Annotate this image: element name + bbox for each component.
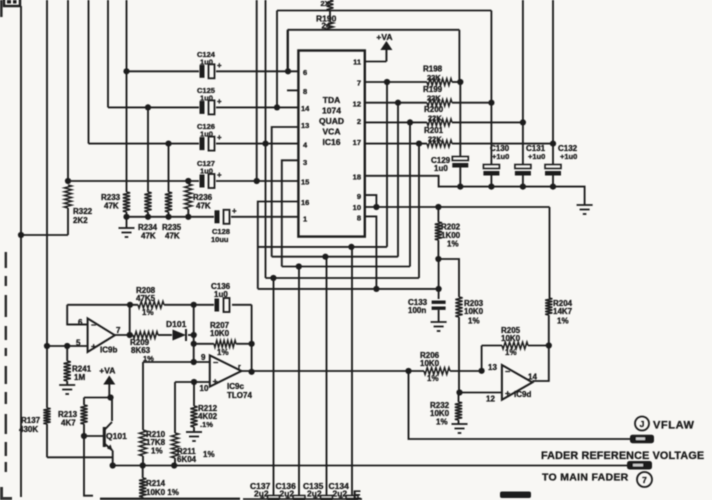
svg-text:47K: 47K bbox=[196, 202, 211, 211]
svg-text:1u0: 1u0 bbox=[200, 167, 213, 176]
label C135 bbox=[303, 481, 324, 499]
node dot emitter/rail bbox=[110, 462, 116, 468]
wire pin2 line (y=122.4) bbox=[365, 121, 523, 123]
node dot pin12 R203/R232 bbox=[456, 389, 462, 395]
svg-text:2u2: 2u2 bbox=[254, 489, 269, 499]
node dot pin7/x387 bbox=[384, 79, 390, 85]
node dot out/x130 bbox=[127, 332, 133, 338]
wire pin3 wrap (x=281.8) bbox=[282, 160, 299, 266]
node dot U4/drop1 bbox=[270, 275, 276, 281]
svg-text:47K: 47K bbox=[141, 232, 156, 241]
node dot rail/R211 bbox=[171, 462, 177, 468]
svg-text:24: 24 bbox=[322, 22, 331, 31]
capacitor C124 bbox=[197, 50, 222, 78]
capacitor C129 column bbox=[431, 30, 468, 187]
svg-text:+VA: +VA bbox=[376, 32, 392, 42]
svg-text:17: 17 bbox=[353, 138, 361, 147]
wire bus V3 (x=68 top edge to row4) bbox=[67, 0, 69, 184]
svg-text:1%: 1% bbox=[151, 447, 163, 456]
bottom-edge E mark bbox=[353, 488, 361, 500]
svg-text:10K0 1%: 10K0 1% bbox=[146, 488, 179, 497]
svg-text:−: − bbox=[505, 367, 510, 377]
svg-text:3: 3 bbox=[303, 158, 307, 167]
svg-text:J: J bbox=[640, 419, 645, 429]
svg-text:6K04: 6K04 bbox=[177, 455, 197, 464]
svg-text:2X: 2X bbox=[321, 0, 330, 8]
node dot VA/collector bbox=[107, 394, 113, 400]
svg-text:R214: R214 bbox=[146, 479, 166, 488]
node dot feedback/R204 bbox=[546, 342, 552, 348]
svg-text:10K0: 10K0 bbox=[420, 359, 440, 368]
pin 16 label bbox=[301, 198, 309, 207]
node dot C131 rail bbox=[520, 184, 526, 190]
wire pin7 line (y=82) bbox=[365, 81, 461, 83]
svg-text:−: − bbox=[91, 320, 96, 330]
svg-text:IC9d: IC9d bbox=[514, 390, 531, 399]
wire VA node (y=397.5) bbox=[84, 397, 112, 399]
node dot C130 rail bbox=[488, 184, 494, 190]
resistor R214 bbox=[139, 466, 179, 500]
svg-text:1u0: 1u0 bbox=[200, 94, 213, 103]
svg-text:2u2: 2u2 bbox=[333, 489, 348, 499]
wire drop pin17 (x=419) bbox=[418, 144, 420, 278]
node dot plus/x47 bbox=[44, 343, 50, 349]
op-amp IC9d bbox=[486, 363, 537, 404]
node dot main/VFLAW tap bbox=[405, 368, 411, 374]
svg-text:VCA: VCA bbox=[323, 127, 341, 137]
node dot U5/C133 column bbox=[436, 286, 442, 292]
pin 10 label bbox=[353, 203, 361, 212]
wire drop to C137 bbox=[273, 278, 275, 496]
wire R207 line bbox=[194, 343, 252, 345]
bottom-left scan mark bbox=[0, 487, 12, 500]
node dot plus/R241 bbox=[64, 343, 70, 349]
wire IC9d feedback (y=345.5) bbox=[482, 346, 549, 371]
svg-text:12: 12 bbox=[486, 395, 495, 404]
capacitor C133 bbox=[408, 298, 446, 322]
node dot R207 left bbox=[191, 341, 197, 347]
wire pin9 line (y=362) bbox=[143, 361, 210, 363]
connector fader reference bbox=[627, 461, 652, 470]
pin 1 label bbox=[303, 215, 307, 224]
ground R241 bbox=[59, 385, 75, 394]
svg-text:10uu: 10uu bbox=[211, 235, 229, 244]
wire drop pin12 (x=398) bbox=[397, 103, 399, 257]
svg-text:R137: R137 bbox=[21, 416, 41, 425]
wire row2 pin14 (y=107.4) bbox=[108, 106, 298, 108]
svg-text:1u0: 1u0 bbox=[200, 58, 213, 67]
pin 7 label bbox=[357, 79, 361, 88]
svg-text:7: 7 bbox=[357, 79, 361, 88]
svg-text:1074: 1074 bbox=[322, 106, 341, 116]
transistor Q101 bbox=[104, 398, 127, 451]
svg-text:1%: 1% bbox=[557, 317, 569, 326]
svg-text:1u0: 1u0 bbox=[214, 290, 228, 299]
pin 14 label bbox=[301, 104, 310, 113]
pin 12 label bbox=[353, 100, 361, 109]
node dot rail/x188 bbox=[185, 214, 191, 220]
pin 13 label bbox=[301, 121, 309, 130]
node dot pin2/x523 bbox=[520, 119, 526, 125]
capacitor C136 bbox=[211, 282, 231, 312]
capacitor C125 bbox=[197, 86, 222, 114]
svg-text:1%: 1% bbox=[217, 348, 229, 357]
svg-text:8: 8 bbox=[357, 214, 361, 223]
svg-text:.1%: .1% bbox=[200, 420, 213, 429]
svg-text:1%: 1% bbox=[468, 317, 480, 326]
svg-text:430K: 430K bbox=[19, 425, 38, 434]
svg-text:+: + bbox=[217, 97, 222, 106]
node dot pin12/x398 bbox=[395, 100, 401, 106]
label C136 bbox=[276, 481, 297, 499]
wire top line1 (y=10.5) bbox=[277, 10, 491, 12]
node dot rail/R214 bbox=[140, 462, 146, 468]
svg-text:47K: 47K bbox=[104, 202, 119, 211]
pin 8 label left bbox=[287, 87, 307, 96]
svg-text:+1u0: +1u0 bbox=[492, 152, 509, 161]
pin 4 label bbox=[303, 141, 308, 150]
pin 3 label bbox=[303, 158, 307, 167]
resistor R211 bbox=[171, 382, 214, 466]
resistor R202 bbox=[435, 207, 461, 259]
node dot U1/drop4 bbox=[348, 244, 354, 250]
left edge top scan mark bbox=[0, 0, 3, 17]
wire top line2 (y=29.8) bbox=[288, 29, 460, 31]
pin 9 label bbox=[357, 192, 361, 201]
wire bus V6 (x=126.5 top edge down to R233) bbox=[126, 0, 128, 192]
wire U1 (y=246.9) bbox=[258, 246, 387, 248]
svg-text:−: − bbox=[213, 358, 218, 368]
wire x130 up to feedback bbox=[129, 305, 131, 335]
power +VA at pin11 bbox=[365, 32, 393, 62]
svg-text:22K: 22K bbox=[427, 94, 441, 103]
wire base feed bbox=[84, 435, 104, 437]
wire IC9d output bbox=[532, 346, 548, 382]
wire fader rail (y=465.5) bbox=[113, 465, 627, 467]
pin 2 label bbox=[357, 117, 361, 126]
resistor R206 bbox=[420, 351, 450, 383]
svg-text:QUAD: QUAD bbox=[319, 116, 344, 126]
pin 17 label bbox=[353, 138, 361, 147]
resistor R203 bbox=[455, 297, 483, 393]
svg-text:+: + bbox=[232, 206, 237, 215]
svg-text:1%: 1% bbox=[142, 308, 154, 317]
resistor R235 bbox=[162, 144, 182, 241]
op-amp IC16 TDA1074 QUAD VCA box bbox=[298, 51, 364, 237]
svg-text:1%: 1% bbox=[203, 450, 215, 459]
svg-text:Q101: Q101 bbox=[106, 431, 127, 441]
op-amp IC9b bbox=[76, 318, 121, 355]
svg-text:+: + bbox=[505, 389, 510, 399]
node dot pin9/pin10 bbox=[373, 204, 379, 210]
node dot R202 top bbox=[435, 204, 441, 210]
wire x287.5 from top line2 to row1 bbox=[287, 30, 289, 72]
node dot C129 rail bbox=[457, 184, 463, 190]
ground C133 bbox=[431, 322, 447, 331]
wire row3 pin4 (y=143.6) bbox=[89, 143, 299, 145]
wire C136 to output node bbox=[251, 305, 253, 372]
svg-text:22K: 22K bbox=[427, 73, 441, 82]
resistor R207 bbox=[210, 321, 236, 357]
wire C133 column bbox=[438, 259, 440, 299]
pin 15 label bbox=[301, 178, 309, 187]
node dot R213 bottom bbox=[81, 433, 87, 439]
bottom scan band bbox=[100, 492, 531, 500]
node dot row1/x288 bbox=[285, 68, 291, 74]
node dot row2/x277 bbox=[274, 104, 280, 110]
resistor R209 bbox=[130, 332, 158, 363]
svg-text:10K0: 10K0 bbox=[464, 307, 484, 316]
wire minus input IC9b bbox=[67, 324, 87, 326]
wire pin12 line (y=102.7) bbox=[365, 102, 492, 104]
svg-text:6: 6 bbox=[78, 318, 83, 327]
svg-text:10: 10 bbox=[353, 203, 361, 212]
svg-text:FADER REFERENCE VOLTAGE: FADER REFERENCE VOLTAGE bbox=[541, 450, 704, 462]
node dot row4/x257 (bus V7 end) bbox=[254, 178, 260, 184]
wire row1 pin6 (y=71.3) bbox=[127, 70, 299, 72]
svg-text:+: + bbox=[217, 61, 222, 70]
svg-text:13: 13 bbox=[301, 121, 309, 130]
wire emitter down bbox=[112, 451, 114, 466]
node dot row4/x188 (R236 top) bbox=[185, 178, 191, 184]
wire bus V1 (x=21 from input box to bottom) bbox=[20, 6, 22, 497]
node dot feedback/summing bbox=[191, 302, 197, 308]
node dot pin7/x460 bbox=[457, 79, 463, 85]
svg-text:E: E bbox=[353, 488, 361, 500]
label FADER REFERENCE VOLTAGE bbox=[541, 450, 704, 462]
resistor R199 bbox=[423, 85, 452, 106]
svg-text:IC9b: IC9b bbox=[100, 346, 117, 355]
svg-text:6: 6 bbox=[303, 68, 307, 77]
resistor R213 bbox=[58, 398, 88, 437]
pin 11 label bbox=[353, 58, 361, 67]
svg-text:14: 14 bbox=[301, 104, 310, 113]
svg-text:1%: 1% bbox=[505, 348, 517, 357]
capacitor C126 bbox=[197, 122, 222, 151]
resistor R322 bbox=[21, 185, 93, 235]
resistor R236 bbox=[185, 184, 213, 217]
svg-text:47K: 47K bbox=[165, 232, 180, 241]
resistor R232 bbox=[430, 393, 462, 427]
svg-text:2u2: 2u2 bbox=[307, 489, 322, 499]
svg-text:22K: 22K bbox=[428, 114, 442, 123]
svg-text:r: r bbox=[238, 364, 241, 371]
resistor R212 bbox=[190, 382, 217, 432]
wire R213 node down to bottom edge bbox=[84, 436, 93, 496]
node dot row3/x168.5 bbox=[165, 141, 171, 147]
wire pin12 line IC9d bbox=[459, 392, 502, 394]
svg-text:2K2: 2K2 bbox=[73, 216, 88, 225]
svg-text:IC16: IC16 bbox=[323, 137, 341, 147]
wire summing node vertical bbox=[193, 305, 195, 362]
node dot row4/x68 bbox=[65, 178, 71, 184]
svg-text:TO MAIN FADER: TO MAIN FADER bbox=[542, 472, 629, 484]
wire U5 (y=288.9) bbox=[258, 288, 439, 290]
svg-text:47K5: 47K5 bbox=[136, 294, 156, 303]
node dot pin17/x419 bbox=[416, 141, 422, 147]
wire IC9b output (y=335) bbox=[115, 334, 194, 336]
wire pin18 to cap rail bbox=[365, 176, 585, 205]
svg-text:18: 18 bbox=[353, 173, 361, 182]
svg-text:7: 7 bbox=[642, 475, 647, 485]
capacitor C137 bbox=[260, 493, 280, 500]
resistor R205 bbox=[501, 326, 528, 357]
node dot row1/x126.5 bbox=[123, 68, 129, 74]
svg-text:TDA: TDA bbox=[323, 95, 340, 105]
svg-text:7: 7 bbox=[116, 326, 121, 335]
svg-text:+1u0: +1u0 bbox=[560, 152, 577, 161]
wire drop to C134 bbox=[351, 247, 353, 496]
node dot C132 rail bbox=[550, 184, 556, 190]
op-amp IC9c bbox=[200, 353, 253, 400]
wire drop to C135 bbox=[326, 257, 328, 496]
pin 6 label bbox=[303, 68, 307, 77]
wire row4 pin15 (y=181) bbox=[68, 180, 298, 182]
svg-text:11: 11 bbox=[353, 58, 361, 67]
node dot row3/x265.5 bbox=[262, 141, 268, 147]
svg-text:9: 9 bbox=[357, 192, 361, 201]
wire U3 (y=266.5) bbox=[282, 266, 410, 268]
node dot U5/pin8 bbox=[373, 286, 379, 292]
left margin scan marks bbox=[5, 252, 7, 472]
wire pin16 wrap (x=257.8 down to lower U) bbox=[258, 202, 299, 289]
resistor R200 bbox=[424, 105, 452, 126]
capacitor C130 column bbox=[483, 11, 509, 187]
svg-text:14K7: 14K7 bbox=[553, 307, 573, 316]
node dot pin17/x553 bbox=[550, 141, 556, 147]
diode D101 bbox=[166, 319, 187, 341]
capacitor C134 bbox=[339, 493, 359, 500]
svg-text:+1u0: +1u0 bbox=[528, 152, 545, 161]
power +VA at Q101 bbox=[99, 366, 115, 398]
svg-text:+VA: +VA bbox=[99, 366, 115, 376]
ground R212 bbox=[186, 432, 202, 441]
wire bus V2 (x=47 top edge down to R137/base) bbox=[46, 0, 48, 457]
svg-text:+: + bbox=[213, 377, 218, 387]
resistor R234 bbox=[138, 107, 158, 240]
node dot rail/x148 bbox=[145, 214, 151, 220]
svg-text:D101: D101 bbox=[166, 319, 187, 329]
svg-text:2: 2 bbox=[357, 117, 361, 126]
wire x288 from top line2 bbox=[287, 30, 289, 72]
svg-text:1u0: 1u0 bbox=[434, 164, 448, 173]
svg-text:8: 8 bbox=[303, 87, 307, 96]
capacitor C136 bbox=[286, 493, 306, 500]
svg-text:22K: 22K bbox=[428, 135, 442, 144]
node dot main/IC9c out bbox=[249, 369, 255, 375]
svg-text:+: + bbox=[91, 342, 96, 352]
svg-text:1%: 1% bbox=[427, 374, 439, 383]
resistor R198 bbox=[423, 65, 452, 86]
svg-text:+: + bbox=[217, 171, 222, 180]
ground cap rail bbox=[577, 205, 593, 214]
node dot pin12/x491 bbox=[488, 100, 494, 106]
capacitor C127 bbox=[197, 159, 222, 188]
wire pin8 wrap bbox=[365, 216, 377, 289]
svg-text:TLO74: TLO74 bbox=[227, 391, 252, 400]
resistor R208 bbox=[136, 286, 164, 317]
node junction x21/y235 bbox=[18, 232, 24, 238]
resistor R195 chain bbox=[316, 11, 337, 31]
wire pin13 wrap (x=271.7) bbox=[272, 127, 299, 257]
svg-text:VFLAW: VFLAW bbox=[653, 420, 695, 432]
wire R204 feed bbox=[549, 207, 551, 298]
wire bus V8 (x=265.5 top to lowest U) bbox=[265, 0, 267, 278]
svg-text:1%: 1% bbox=[447, 240, 459, 249]
node dot D101 cathode bbox=[191, 332, 197, 338]
svg-text:10: 10 bbox=[200, 384, 209, 393]
capacitor C128 bbox=[211, 206, 237, 244]
ground R232 bbox=[452, 424, 468, 433]
wire pin10 line (y=207) bbox=[365, 206, 550, 208]
node dot pin10/R212 bbox=[191, 379, 197, 385]
node dot pin13 bbox=[479, 368, 485, 374]
wire drop pin7 (x=387) bbox=[386, 82, 388, 247]
svg-text:1%: 1% bbox=[436, 418, 448, 427]
label TO MAIN FADER bbox=[542, 472, 629, 484]
svg-text:100n: 100n bbox=[408, 306, 426, 315]
svg-text:9: 9 bbox=[201, 353, 206, 362]
label C134 bbox=[329, 481, 350, 499]
node dot pin2/x410 bbox=[407, 119, 413, 125]
resistor R196 (top, clipped) bbox=[321, 0, 334, 11]
node dot U3/drop2 bbox=[296, 263, 302, 269]
svg-text:1M: 1M bbox=[74, 373, 85, 382]
svg-text:+: + bbox=[217, 133, 222, 142]
wire main line (IC9c out to IC9d pin13) bbox=[241, 370, 481, 372]
ground under R233 rail bbox=[119, 217, 135, 237]
node dot U2/drop3 bbox=[322, 254, 328, 260]
resistor R210 bbox=[139, 362, 165, 466]
svg-text:15: 15 bbox=[301, 178, 309, 187]
node dot row2/x148 bbox=[145, 104, 151, 110]
resistor R137 bbox=[19, 408, 51, 434]
wire pin10 line (y=382) bbox=[175, 381, 210, 383]
svg-text:R322: R322 bbox=[73, 207, 93, 216]
input box top-left bbox=[4, 0, 20, 6]
wire bus V7 (x=256.7 top to pin15 row) bbox=[256, 0, 258, 181]
wire pin9 bracket bbox=[365, 195, 377, 207]
node dot summing/pin9 bbox=[191, 359, 197, 365]
resistor R241 bbox=[64, 346, 92, 385]
node dot feedback/out bbox=[127, 302, 133, 308]
svg-text:4K7: 4K7 bbox=[61, 419, 76, 428]
svg-text:13: 13 bbox=[488, 363, 497, 372]
svg-text:10K0: 10K0 bbox=[210, 329, 230, 338]
svg-text:1u0: 1u0 bbox=[200, 130, 213, 139]
wire R202-R203 link bbox=[438, 259, 459, 297]
node dot R202 bottom bbox=[435, 256, 441, 262]
svg-text:2u2: 2u2 bbox=[280, 489, 295, 499]
wire plus input IC9b (y=346) bbox=[47, 345, 88, 347]
svg-text:12: 12 bbox=[353, 100, 361, 109]
node J VFLAW bbox=[635, 417, 695, 432]
wire R137 base line (y=457.3) bbox=[47, 456, 113, 458]
svg-text:10K0: 10K0 bbox=[501, 334, 521, 343]
svg-text:IC9c: IC9c bbox=[227, 382, 244, 391]
svg-text:1: 1 bbox=[303, 215, 307, 224]
label C137 bbox=[250, 481, 271, 499]
svg-text:16: 16 bbox=[301, 198, 309, 207]
capacitor C132 column bbox=[545, 0, 578, 187]
capacitor C131 column bbox=[515, 0, 546, 187]
node dot rail/x168.5 bbox=[165, 214, 171, 220]
pin 18 label bbox=[353, 173, 361, 182]
node 7 main fader bbox=[637, 472, 652, 487]
pin 8 label right bbox=[357, 214, 361, 223]
wire drop to C136 bbox=[298, 267, 300, 496]
wire drop pin2 (x=410) bbox=[409, 122, 411, 266]
